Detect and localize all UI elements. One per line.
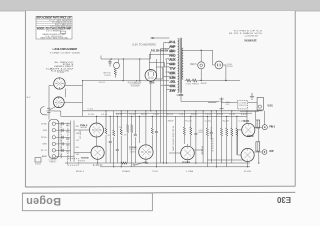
svg-text:C-18 .02: C-18 .02 (205, 114, 211, 116)
svg-text:R-30 5K: R-30 5K (241, 114, 248, 116)
V4 electrodes (94, 146, 100, 159)
transformer T1 secondary winding (182, 48, 183, 79)
svg-text:AMP: AMP (42, 155, 48, 158)
svg-text:L-23A: L-23A (186, 170, 194, 173)
connector terminal 3 (52, 136, 55, 139)
wire V3 top to bus (96, 116, 98, 123)
footer rule (22, 192, 295, 193)
shield box beside V2 (156, 67, 162, 79)
column component marks (66, 125, 80, 156)
table row line 5 (36, 26, 72, 28)
V7 electrodes (245, 123, 251, 136)
wire drop x156 (155, 59, 157, 67)
filter capacitor C-9 (108, 59, 111, 67)
driver tube V5 (139, 145, 153, 159)
resistor on x121.2 (120, 129, 122, 135)
resistor on x113.7 (113, 130, 115, 136)
feedback dashed wire (212, 138, 214, 152)
svg-text:C-18 25MF: C-18 25MF (210, 127, 212, 141)
wire drop x123.4 to heater bus (122, 59, 124, 81)
wire x216.4 (215, 111, 217, 167)
svg-text:GRID RET: GRID RET (269, 151, 273, 153)
transformer terminal side notes (165, 43, 169, 88)
Bogen logo text (upside down) (26, 195, 61, 207)
grid wire x110.2 (109, 116, 111, 163)
fuse holder F-1 (257, 97, 263, 110)
svg-text:6.3V TO HEATERS: 6.3V TO HEATERS (46, 29, 61, 32)
junction dots heater bus (122, 80, 123, 81)
wire x131.7 (131, 116, 133, 166)
ground lug box bottom-left (35, 158, 41, 162)
push-pull left tie wires (238, 130, 242, 155)
svg-text:R-11 1M: R-11 1M (116, 114, 122, 116)
wire V1A to V1B coupling (65, 89, 67, 98)
V6 cathode to ground bus (187, 160, 189, 163)
phono plug symbol (40, 107, 47, 115)
svg-text:JRJA09: JRJA09 (122, 170, 131, 173)
output transformer half 2 (box) (256, 142, 260, 151)
schematic sheet left border (24, 11, 26, 187)
svg-text:B+ 330V DC: B+ 330V DC (186, 83, 192, 85)
svg-text:C-4 .005 DISC: C-4 .005 DISC (177, 93, 183, 97)
svg-text:6.3V TO HEATERS: 6.3V TO HEATERS (46, 109, 54, 112)
svg-text:SCREEN 270V: SCREEN 270V (190, 63, 197, 66)
junction dot at pilot lamp feed (201, 50, 202, 51)
V2 plate structures (148, 71, 153, 76)
wire x139.4 (138, 116, 140, 143)
transformer secondary drop wire (258, 128, 260, 163)
transformer heater lead (144, 80, 169, 82)
wire x226.7 with resistor (226, 116, 228, 166)
wire x211.3 (210, 111, 212, 163)
connector terminal 2 (52, 129, 55, 132)
wire x231.8 with resistor (231, 111, 233, 163)
wire V5 bottom (145, 159, 147, 163)
AC outlet right lead (223, 65, 226, 81)
transformer lead wire t9 (164, 75, 170, 77)
connector terminal 1 (52, 122, 55, 125)
svg-text:TO PIN 6 OF V-3: TO PIN 6 OF V-3 (239, 105, 247, 107)
scanner background band (0, 0, 320, 11)
wire V8 bottom to gnd (247, 162, 249, 167)
wire volume column to V4 grid (74, 152, 91, 154)
wire plug to bus B (54, 111, 61, 116)
svg-text:R-23 82K: R-23 82K (191, 114, 198, 116)
svg-text:MIC 1 MIC 2 PHONO TUNER: MIC 1 MIC 2 PHONO TUNER TAPE (59, 123, 62, 160)
svg-text:22K: 22K (170, 80, 174, 82)
junction dot heater/lamp (201, 80, 202, 81)
svg-text:C-1 .02 C-2 .02 C-3 .05 R-2: C-1 .02 C-2 .02 C-3 .05 R-2 1M (66, 123, 68, 159)
svg-text:R-31 250 OHM 5W: R-31 250 OHM 5W (182, 162, 190, 164)
terminal wires to filter column (56, 124, 75, 157)
wire volume column to V3 grid (74, 129, 89, 131)
wire remote box to fuse (248, 102, 257, 104)
wire x190.8 with resistor (190, 116, 192, 146)
table small stamp box (60, 31, 65, 33)
svg-text:FL-835: FL-835 (244, 171, 252, 173)
electrolytic capacitor C-9B (118, 59, 120, 63)
main bus A (B+) (83, 110, 263, 112)
V2 cathode drop wire (150, 81, 152, 111)
B+ bus wire y59 (101, 58, 150, 60)
wire pilot lamp top (200, 50, 202, 62)
wire V7 top to bus (246, 111, 248, 124)
V1A electrodes (57, 81, 63, 87)
preamp tube V1A (54, 78, 65, 89)
svg-text:L-3018-2 REPLACEMENT: L-3018-2 REPLACEMENT (53, 48, 78, 51)
svg-text:Bogen: Bogen (26, 195, 61, 207)
transformer T1 core (179, 38, 181, 93)
svg-text:TONE CONT 500K: TONE CONT 500K (80, 161, 86, 163)
svg-text:C-12 20/20 MFD 450V: C-12 20/20 MFD 450V (245, 35, 259, 37)
table row line 3 (36, 22, 72, 24)
wire AC line to transformer (149, 53, 169, 55)
cap C on x110.2 (109, 140, 112, 145)
transformer lead wire t8 (167, 71, 170, 73)
svg-text:TV: TV (170, 76, 174, 78)
connector terminal 5 (52, 149, 55, 152)
V5 electrodes (142, 145, 149, 159)
main bus B (heater/gnd) (61, 115, 247, 117)
terminal labels left (41, 123, 48, 158)
schematic sheet bottom border (25, 185, 295, 188)
riser output transformer primary 1 (255, 111, 257, 120)
svg-text:470K: 470K (41, 123, 48, 125)
wire drop x140 to heater bus (139, 59, 141, 81)
amplifier tube V4 (91, 146, 104, 159)
wire V5 top to bus (145, 111, 147, 145)
svg-text:R-27 1K: R-27 1K (217, 114, 224, 116)
transformer T1 primary winding (178, 39, 179, 93)
svg-text:B+ 330V DC: B+ 330V DC (93, 165, 103, 167)
wire V1A input left (49, 85, 54, 87)
svg-text:EF30-1: EF30-1 (76, 171, 85, 173)
middle B+ feed bus (116, 112, 253, 114)
wire y101.4 to switch area (208, 102, 216, 104)
bus junction dots (96, 110, 260, 167)
svg-text:R-7 220K: R-7 220K (88, 114, 95, 116)
connector terminal 4 (52, 142, 55, 145)
transformer lead wire t3 (161, 49, 170, 163)
speaker terminal jack 1 (262, 125, 267, 130)
model number E30 (upside down) (276, 195, 291, 204)
svg-text:P-1: P-1 (41, 150, 47, 152)
dropping resistor below cap (114, 69, 116, 78)
rectifier tube V2 (145, 70, 157, 82)
svg-text:GRID RET: GRID RET (201, 83, 208, 85)
svg-text:C-7 .02 600V: C-7 .02 600V (57, 72, 64, 74)
svg-text:R-20 250 OHM 10W: R-20 250 OHM 10W (172, 126, 174, 151)
stub at left end of bus (100, 56, 102, 60)
wire x113.7 (113, 111, 115, 167)
input connector strip (49, 120, 59, 159)
cathode resistor on ground bus (121, 162, 127, 165)
connector terminal 6 (52, 155, 55, 158)
svg-text:6.3V TO HEATERS: 6.3V TO HEATERS (132, 43, 156, 46)
transformer lead wire t6 (167, 62, 170, 64)
dashed accessory box (68, 159, 79, 165)
resistor on x131.7 (131, 125, 133, 133)
volume control column wire 2 (73, 121, 75, 162)
svg-text:6.3V TO HEATERS: 6.3V TO HEATERS (119, 126, 122, 129)
schematic sheet right border (294, 11, 296, 186)
table row line 1 (36, 18, 72, 20)
svg-text:T11: T11 (165, 85, 169, 87)
input coupling caps (62, 122, 63, 152)
speaker switch (bottom right) (220, 97, 224, 110)
V1B electrodes (56, 100, 61, 105)
svg-text:.01: .01 (170, 89, 174, 91)
resistor R on x106 (105, 128, 107, 134)
wire V1A output right (65, 85, 82, 87)
phase splitter tube V6 (181, 146, 195, 160)
wire x175.4 screen feed (174, 116, 176, 163)
svg-text:P-1: P-1 (170, 50, 174, 52)
wire drop to rectifier V2 (148, 54, 150, 69)
115V AC input arrow wire (151, 37, 170, 39)
output tube V8 (241, 148, 254, 161)
wire V1B out diagonal to jack (49, 107, 55, 111)
svg-text:68K: 68K (170, 45, 174, 47)
remote control dashed box (237, 101, 247, 109)
stage voltage callouts under bus (168, 121, 245, 123)
wire x207.4 with resistor (206, 116, 208, 166)
wire V6 top (187, 144, 189, 146)
input riser wire (48, 86, 50, 120)
wire 6.3V heater line right section (185, 80, 240, 82)
cap on x156.4 (155, 130, 158, 137)
heater dropping resistor R-A (186, 79, 190, 82)
lower ground bus 2 (100, 166, 250, 168)
cap on x195.9 (194, 132, 197, 139)
resistor on x152.3 (151, 128, 153, 134)
heater riser from bus to preamps (82, 81, 84, 117)
standby switch on ground bus (134, 162, 147, 166)
wire x127.6 (127, 111, 129, 163)
riser from switch line (149, 52, 151, 60)
cap on x211.3 (210, 131, 213, 138)
svg-text:R-22 1 MEG VOL: R-22 1 MEG VOL (268, 104, 273, 108)
cap on x117.3 (116, 148, 119, 153)
pilot lamp PL-1 (198, 62, 205, 69)
speaker terminal jack 2 (262, 150, 267, 155)
svg-text:TONE CONT 500K: TONE CONT 500K (227, 66, 233, 68)
svg-text:C-12 20/20 MFD 450V: C-12 20/20 MFD 450V (124, 135, 127, 137)
svg-text:C-8 .02: C-8 .02 (101, 114, 107, 116)
svg-text:R-19 10K: R-19 10K (167, 114, 174, 116)
svg-text:B+ 330V DC: B+ 330V DC (247, 135, 254, 138)
svg-text:C-13 .02: C-13 .02 (153, 114, 159, 116)
wire switch to remote box (222, 102, 238, 104)
heater dropping resistor R-B (193, 79, 197, 82)
component designation row above bus (88, 114, 248, 116)
svg-text:SCREEN 270V: SCREEN 270V (198, 132, 203, 134)
svg-text:R-22 1 MEG VOL: R-22 1 MEG VOL (130, 151, 136, 153)
svg-text:R-14 470K 1/2W: R-14 470K 1/2W (226, 104, 230, 106)
junction dots on B+ bus (111, 58, 112, 59)
svg-text:C-7 .02 600V: C-7 .02 600V (149, 82, 155, 84)
wire x203 (202, 111, 204, 163)
transformer lead wire t11 (161, 84, 170, 86)
bias wire to output stage (207, 159, 243, 161)
svg-text:330V: 330V (168, 121, 175, 123)
transformer bottom lead (180, 93, 182, 96)
svg-text:R-9 100K PLATE: R-9 100K PLATE (108, 134, 111, 137)
wire x184.4 with resistor (183, 111, 185, 144)
transformer terminal numbers (170, 41, 175, 91)
amplifier tube V3 (90, 123, 104, 137)
svg-text:PIN 3: PIN 3 (269, 126, 275, 128)
svg-text:GRID RET: GRID RET (80, 127, 88, 129)
svg-text:TO PIN 6 OF V-3: TO PIN 6 OF V-3 (99, 82, 106, 84)
svg-text:R-15 47K: R-15 47K (141, 114, 148, 116)
svg-text:R-9 100K PLATE: R-9 100K PLATE (131, 84, 140, 87)
svg-text:1W: 1W (43, 130, 48, 132)
svg-text:R-18 56K: R-18 56K (35, 163, 41, 165)
wire x221.5 with resistor (221, 111, 223, 163)
svg-text:SCREEN 270V: SCREEN 270V (50, 161, 56, 163)
riser to speaker jack 1 (264, 111, 266, 125)
resistor on x127.6 (127, 125, 129, 133)
volume control column wire 1 (70, 121, 72, 162)
transformer lead wire t2 (164, 43, 170, 163)
output tube V7 (242, 123, 255, 136)
preamp tube V1B (53, 97, 64, 108)
svg-text:5%: 5% (41, 137, 48, 139)
svg-text:C-16 .1: C-16 .1 (179, 114, 185, 116)
transformer lead wire t12 (167, 89, 170, 91)
wire V3 to V4 (96, 137, 98, 146)
wire x117.3 (116, 116, 118, 163)
wire x195.9 (195, 111, 197, 163)
svg-text:FEEDBK: FEEDBK (200, 146, 202, 156)
V8 electrodes (244, 148, 250, 161)
power transformer T1 terminal boxes (169, 40, 176, 92)
6.3V heater bus (83, 80, 145, 82)
svg-text:TONE CONT 500K: TONE CONT 500K (50, 52, 81, 54)
wire branch to transformer tap (149, 63, 169, 67)
table row line 4 (36, 24, 72, 26)
AC convenience outlet (215, 61, 223, 69)
wire V4 bottom to gnd bus (97, 159, 99, 163)
plate resistor wire x106 (105, 111, 107, 163)
wire x135.3 with cap (134, 111, 136, 163)
wire x236.9 with resistor (236, 116, 238, 155)
svg-text:.01: .01 (76, 140, 80, 142)
wire V8 plate to transformer (254, 151, 262, 153)
wire pilot lamp bottom (200, 69, 202, 81)
output transformer half 1 (box) (256, 120, 260, 128)
svg-text:PIN 3: PIN 3 (192, 83, 200, 85)
svg-text:R-14 470K 1/2W: R-14 470K 1/2W (105, 75, 111, 77)
svg-text:R-14 470K 1/2W: R-14 470K 1/2W (81, 157, 89, 160)
table row line 2 (36, 20, 72, 22)
transformer bottom wire to ground bus (181, 96, 220, 102)
parts-list table outline (36, 16, 72, 39)
top bus right segment (240, 110, 259, 112)
V6 grid wire (169, 152, 181, 154)
svg-text:C-19 .05: C-19 .05 (229, 114, 235, 116)
svg-text:C-11 .05: C-11 .05 (129, 114, 135, 116)
Bogen logo box (22, 193, 152, 211)
svg-text:1W: 1W (76, 154, 80, 156)
wire HV secondary to pilot/outlet (182, 50, 215, 65)
chassis ground symbol (250, 93, 254, 99)
V6 plate wire (194, 149, 203, 151)
transformer lead wire t5 (167, 59, 170, 163)
wire V7 plate to transformer (255, 126, 262, 128)
svg-text:R-9 100K PLATE: R-9 100K PLATE (245, 39, 257, 43)
wire V1B plate out (64, 101, 82, 103)
schematic sheet inner tint (25, 11, 295, 187)
V3 electrodes (93, 123, 100, 137)
wire x152.3 (151, 116, 153, 148)
svg-text:E30: E30 (276, 195, 291, 204)
bottom ground bus (65, 162, 250, 164)
V6 electrodes (184, 146, 191, 160)
svg-text:TONE CONT 500K: TONE CONT 500K (243, 121, 249, 123)
wire x156.4 (155, 111, 157, 167)
wire x121.2 (120, 111, 122, 167)
svg-text:NEW YORK 7 NEW YORK USA: NEW YORK 7 NEW YORK USA (41, 36, 69, 39)
